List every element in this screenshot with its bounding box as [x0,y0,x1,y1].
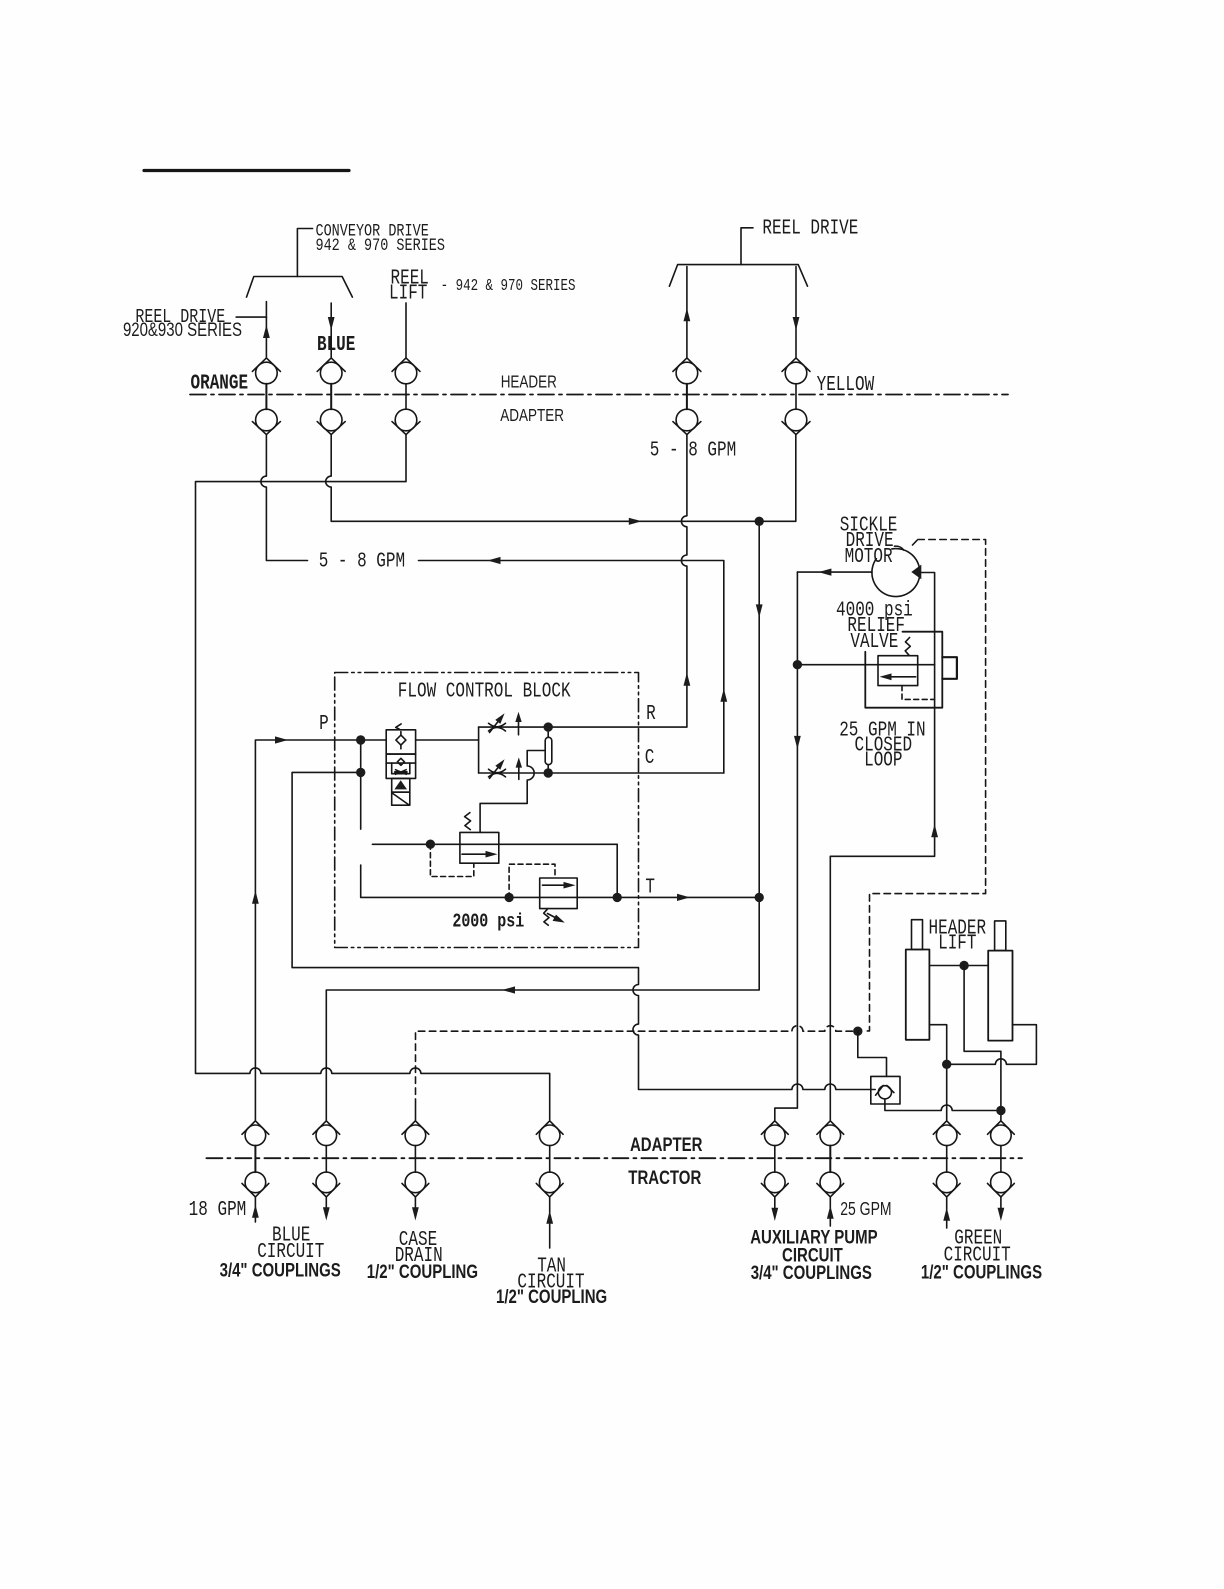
arrow up on orange drop [263,325,270,338]
cylinder CYL1 rod [912,920,923,950]
arrow up on R riser [684,673,691,686]
valve V1 bracket [392,763,410,774]
wire pilot from capsule to compensator valve [480,751,545,833]
wire P supply line and 18 gpm riser [255,740,386,1120]
arrow left on tank return line [502,986,515,993]
wire reel lift riser via left trunk to tan drop [196,435,550,1120]
flow divider FD1 R branch edge [479,726,549,728]
coupling blue adapter (lower half) [317,384,345,435]
restrictor RS1 on R branch [489,713,506,732]
arrow right on P supply [275,736,288,743]
relief valve RV1 port notch [942,657,957,679]
wire P node drop between dots [360,740,362,772]
coupling blue-pressure tractor (lower half) [242,1146,269,1197]
pilot dashed RV1 [902,686,934,700]
svg-text:1/2" COUPLINGS: 1/2" COUPLINGS [921,1260,1042,1282]
wire V2 inlet stub [372,843,617,845]
coupling green-right tractor (lower half) [988,1146,1015,1197]
pilot dashed under V2 [430,844,473,876]
coupling aux-pressure adapter (upper half) [817,1121,844,1146]
wire case drain solid stub [415,1106,417,1120]
junction dot between cylinders [959,961,968,970]
svg-text:3/4" COUPLINGS: 3/4" COUPLINGS [751,1261,872,1283]
label HEADER LIFT [929,917,987,955]
leader for conveyor drive label [297,229,312,277]
coupling case-drain tractor (lower half) [402,1146,429,1197]
leader for reel drive label [741,228,753,265]
leader from motor label [895,546,904,550]
wire stub below blue-pressure with up arrow [252,1197,259,1222]
svg-text:920&930 SERIES: 920&930 SERIES [123,318,242,340]
coupling aux-return tractor (lower half) [761,1146,788,1197]
svg-text:YELLOW: YELLOW [817,373,875,397]
cylinder CYL2 body [988,951,1012,1041]
valve V1 closure mark [395,770,407,775]
coupling yellow-left header (upper half) [673,358,701,384]
svg-text:1/2" COUPLING: 1/2" COUPLING [496,1285,607,1307]
junction dot P1 [356,735,365,744]
svg-text:- 942 & 970 SERIES: - 942 & 970 SERIES [441,278,576,296]
motor M1 circle [872,549,920,597]
leader for reel drive 920&930 label [236,316,266,318]
svg-text:942 & 970 SERIES: 942 & 970 SERIES [316,235,446,255]
wire orange riser to 5-8 gpm line to C riser [261,435,724,773]
svg-text:TRACTOR: TRACTOR [628,1166,701,1188]
wire yellow-right drop from bracket [795,267,797,358]
dashed case drain loop from motor to case drain coupling [416,540,986,1107]
junction dot T pilot [504,893,513,902]
svg-text:ORANGE: ORANGE [191,372,249,396]
arrow in V2 [462,851,498,858]
arrow up on pump feed [931,824,938,837]
svg-text:C: C [645,746,655,770]
svg-text:REEL DRIVE: REEL DRIVE [762,217,858,241]
header/adapter boundary line [190,394,1008,396]
wire orange drop from bracket [265,302,267,358]
label 4000 psi RELIEF VALVE [836,599,913,654]
wire stub below blue-return with down arrow [323,1197,330,1221]
wire yellow-left drop from bracket [686,267,688,358]
arrow left on motor return [818,569,831,576]
junction dot case drain at check feed [853,1027,862,1036]
arrow up on C branch [516,757,522,779]
arrow up on yellow-left drop [684,308,691,321]
compensator capsule CP1 [545,727,552,773]
wire between cylinder rods [929,965,988,967]
coupling reel lift adapter (lower half) [392,384,420,435]
compensator valve V2 body [460,832,499,863]
cylinder CYL2 rod [995,921,1006,951]
svg-text:25 GPM: 25 GPM [840,1199,891,1219]
filter F1 diamond [396,732,406,749]
title underline [144,169,349,172]
wire CV1 outlet to green right drop [885,1099,1001,1111]
flow divider FD1 C branch edge [479,772,724,774]
svg-text:3/4" COUPLINGS: 3/4" COUPLINGS [220,1259,341,1281]
svg-text:VALVE: VALVE [850,630,898,654]
label 25 GPM IN CLOSED LOOP [839,719,925,773]
adjust arrow on V3 [548,914,565,923]
svg-text:P: P [319,712,329,736]
svg-text:LIFT: LIFT [389,282,427,306]
svg-text:ADAPTER: ADAPTER [500,406,564,425]
coupling green-left adapter (upper half) [933,1121,960,1146]
motor M1 rotation arrowhead [911,565,921,580]
junction dot green left node [942,1060,951,1069]
coupling yellow-right header (upper half) [782,358,810,384]
coupling green-left tractor (lower half) [933,1146,960,1197]
wire CYL1 base to green left node [929,1025,946,1120]
element E1 filled triangle section [392,778,410,792]
check valve CV1 ball and seat [871,1086,894,1099]
bracket reel drive group [669,265,807,287]
junction dot T at V2 outlet [613,893,622,902]
relief valve V3 (2000 psi) body [540,878,578,909]
junction dot relief line [793,660,802,669]
svg-text:FLOW CONTROL BLOCK: FLOW CONTROL BLOCK [398,680,571,704]
wire stub below case-drain with down arrow [412,1197,419,1221]
flow control block boundary [335,673,639,948]
junction dot green right drop [996,1106,1005,1115]
wire V2 outlet to T [616,844,618,897]
svg-text:BLUE: BLUE [317,333,355,357]
svg-text:T: T [645,875,655,899]
svg-text:MOTOR: MOTOR [845,545,893,569]
arrow up on R branch [515,712,521,735]
wire tank trunk from pump line down to blue tractor drop [326,521,759,1120]
spring on RV1 [905,638,910,656]
coupling tan tractor (lower half) [536,1146,563,1197]
svg-text:ADAPTER: ADAPTER [630,1133,703,1155]
svg-text:5 - 8 GPM: 5 - 8 GPM [319,550,405,574]
coupling aux-return adapter (upper half) [761,1121,788,1146]
coupling aux-pressure tractor (lower half) [817,1146,844,1197]
wire blue drop from bracket [330,303,332,358]
junction dot T at trunk [755,893,764,902]
junction dot C capsule [544,768,553,777]
wire stub below tan with up arrow [546,1197,553,1248]
coupling reel lift header (upper half) [392,358,420,384]
cylinder CYL1 body [906,950,930,1040]
wire stub below aux-return with down arrow [771,1197,778,1221]
wire P node stub below lower dot [360,772,362,829]
arrow right on T line [677,894,690,901]
coupling blue-return tractor (lower half) [313,1146,340,1197]
label TAN CIRCUIT 1/2" COUPLING [496,1255,607,1308]
label SICKLE DRIVE MOTOR [840,514,898,569]
wire blue riser to yellow-right riser (pump line) [326,435,796,522]
label GREEN CIRCUIT 1/2" COUPLINGS [921,1227,1042,1283]
wire motor return trunk to aux coupling A [775,572,798,1120]
valve V1 divider [386,762,415,764]
arrow down on blue drop [328,317,335,330]
wire T line [361,865,760,897]
coupling tan adapter (upper half) [536,1121,563,1146]
valve V1 diamond [397,758,404,765]
wire stub below green-right with down arrow [998,1197,1005,1221]
filter F1 vent mark [396,724,401,729]
check valve CV1 body [871,1076,900,1104]
pilot dashed from T to V3 [509,864,555,898]
svg-text:2000 psi: 2000 psi [452,912,524,933]
wire reel lift drop [405,303,407,358]
coupling blue-pressure adapter (upper half) [242,1121,269,1146]
coupling yellow-right adapter (lower half) [782,384,810,435]
junction dot V2 inlet [426,840,435,849]
flow divider FD1 inlet edge [478,727,480,773]
wire motor left line [797,571,872,573]
svg-text:HEADER: HEADER [501,373,557,392]
arrow left on 5-8 gpm line [488,557,501,564]
valve V1 body (sequence cartridge) [386,754,415,778]
arrow down on motor return trunk [794,736,801,749]
wire motor right line down through relief to aux coupling B [830,573,934,1121]
relief valve RV1 outer body [865,632,942,708]
element E2 drain section [392,792,410,805]
wire relief main line [797,664,934,666]
junction dot R capsule [544,722,553,731]
wire rod side down to green right coupling [964,966,1001,1121]
arrow down on yellow-right drop [793,317,800,330]
coupling orange header (upper half) [252,358,280,384]
arrow right on pump line [629,518,642,525]
svg-text:1/2" COUPLING: 1/2" COUPLING [367,1260,478,1282]
coupling case-drain adapter (upper half) [402,1121,429,1146]
spring on V2 [465,813,471,830]
adapter/tractor boundary line [206,1157,1022,1159]
coupling blue-return adapter (upper half) [313,1121,340,1146]
junction dot pump line [755,517,764,526]
arrow up on C riser [720,689,727,702]
label AUXILIARY PUMP CIRCUIT 3/4" COUPLINGS [750,1226,877,1284]
arrow in V3 [543,882,576,889]
wire stub below aux-pressure with up arrow [827,1197,834,1226]
spring below V3 [544,909,549,926]
arrow in RV1 [880,673,916,680]
coupling orange adapter (lower half) [252,384,280,435]
coupling yellow-left adapter (lower half) [673,384,701,435]
relief valve RV1 inner body [878,656,918,686]
restrictor RS2 on C branch [489,759,506,778]
wire CYL2 base to green left node [947,1025,1037,1065]
filter F1 body [386,730,415,754]
label BLUE CIRCUIT 3/4" COUPLINGS [220,1224,341,1281]
svg-text:R: R [646,702,656,726]
svg-text:18 GPM: 18 GPM [189,1198,247,1222]
wire bypass from P node to check valve feed [292,772,871,1089]
coupling blue header (upper half) [317,358,345,384]
coupling green-right adapter (upper half) [988,1121,1015,1146]
bracket conveyor drive group [247,277,353,298]
junction dot P2 [356,768,365,777]
svg-text:LOOP: LOOP [864,749,902,773]
wire from case drain node down to check valve CV1 [858,1031,887,1076]
svg-text:LIFT: LIFT [938,932,976,956]
svg-text:5 - 8 GPM: 5 - 8 GPM [650,439,736,463]
arrow down on tank trunk [756,604,763,617]
label CASE DRAIN 1/2" COUPLING [367,1228,478,1282]
wire P internal to divider [416,739,479,741]
wire yellow-left riser to R port [548,435,687,727]
wire stub below green-left with up arrow [943,1197,950,1228]
arrow up on 18 gpm riser [252,891,259,904]
